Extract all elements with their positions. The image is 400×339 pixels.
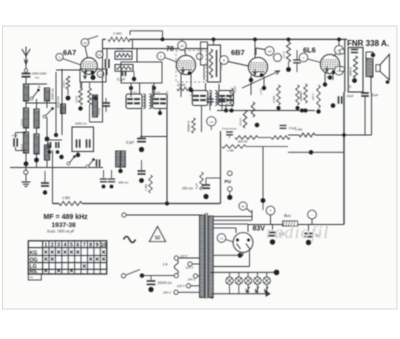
wire drop to resistor box xyxy=(132,39,134,49)
resistor screen xyxy=(296,85,300,105)
svg-text:9: 9 xyxy=(96,242,99,248)
band switch slash E xyxy=(86,165,89,168)
svg-text:PU: PU xyxy=(225,179,232,184)
svg-text:1 MΩ: 1 MΩ xyxy=(62,196,70,200)
svg-text:×: × xyxy=(63,250,67,257)
svg-text:HF: HF xyxy=(98,54,102,57)
svg-text:10000: 10000 xyxy=(62,80,66,88)
wire rectifier heater return xyxy=(249,250,251,267)
padding capacitor cluster xyxy=(47,142,49,148)
junction dot PU xyxy=(227,195,232,200)
resistor 50000 vertical small xyxy=(251,102,255,117)
capacitor antenna series 1500-2000 cm xyxy=(25,65,27,70)
svg-text:FNR 338 A.: FNR 338 A. xyxy=(347,39,389,48)
svg-text:0,1µF: 0,1µF xyxy=(117,78,126,82)
heater arrows xyxy=(246,287,250,293)
svg-text:20000 cm: 20000 cm xyxy=(157,281,172,285)
svg-text:×: × xyxy=(57,250,61,257)
wire stage box top xyxy=(103,48,208,50)
capacitor IFT1b xyxy=(134,98,140,100)
svg-text:Scala: 1000 cm pF: Scala: 1000 cm pF xyxy=(47,230,75,234)
svg-text:B: B xyxy=(223,59,225,63)
svg-text:50000: 50000 xyxy=(300,90,303,98)
dial lamps xyxy=(226,277,233,284)
svg-text:10: 10 xyxy=(101,242,107,248)
junction dot xyxy=(132,77,136,81)
wire B+ right riser xyxy=(343,92,345,225)
IF transformer 1 secondary box xyxy=(153,94,168,109)
resistor 10000 below 6A7 xyxy=(66,76,70,89)
wire right column xyxy=(344,40,346,92)
terminal earth xyxy=(24,170,28,174)
svg-text:80 cm: 80 cm xyxy=(153,90,161,94)
IF transformer 2 secondary box xyxy=(219,91,234,106)
wire cap links xyxy=(16,132,27,134)
IFT1 coils xyxy=(143,94,145,109)
wire IFT1 leads xyxy=(139,83,141,94)
voltage tap 240V xyxy=(174,290,178,294)
resistor 1 Mohm vertical xyxy=(230,88,234,107)
magic eye circle LM xyxy=(207,117,216,126)
svg-text:25000: 25000 xyxy=(20,118,24,126)
svg-text:1 MΩ: 1 MΩ xyxy=(295,128,303,132)
svg-text:20000: 20000 xyxy=(176,83,186,87)
svg-text:V=: V= xyxy=(30,276,34,280)
valve-band table xyxy=(28,241,106,274)
voltage tap 145V xyxy=(194,274,198,278)
svg-text:2000 Ω: 2000 Ω xyxy=(349,67,353,77)
wire xyxy=(25,128,27,132)
junction dot xyxy=(261,198,266,203)
capacitor 3uF first xyxy=(272,225,274,232)
coil small x63 xyxy=(61,104,66,114)
junction dot below 6A7 xyxy=(91,75,96,80)
capacitor feedback xyxy=(226,131,233,133)
svg-text:×: × xyxy=(101,250,105,257)
svg-text:Betr.: Betr. xyxy=(284,213,291,218)
svg-text:4 MΩ: 4 MΩ xyxy=(272,95,276,103)
svg-text:2: 2 xyxy=(51,242,54,248)
wire HF box down link xyxy=(102,78,104,122)
svg-text:1937-38: 1937-38 xyxy=(52,222,77,229)
svg-text:4650 cm: 4650 cm xyxy=(56,96,60,108)
screen box 78 stage left edge xyxy=(136,49,138,62)
wire pickup line xyxy=(122,213,126,217)
svg-text:LN: LN xyxy=(220,237,224,241)
svg-text:25000: 25000 xyxy=(75,95,79,103)
voltage tap 110V xyxy=(178,257,199,259)
svg-text:×: × xyxy=(89,257,93,264)
capacitor 20000 cm mains xyxy=(150,276,152,280)
capacitor IFT1d xyxy=(160,98,166,100)
mains transformer primary winding xyxy=(200,215,205,298)
svg-text:125 V: 125 V xyxy=(186,266,195,270)
capacitor lower cluster xyxy=(96,159,98,166)
resistor right of 6B7 xyxy=(287,42,291,62)
svg-text:cm: cm xyxy=(35,75,40,79)
circle V xyxy=(299,53,307,61)
svg-text:600 K: 600 K xyxy=(312,93,315,100)
box below 6A7 xyxy=(80,69,106,82)
band switch slash D xyxy=(67,162,70,165)
junction dot xyxy=(24,161,29,166)
svg-text:S: S xyxy=(349,85,351,89)
svg-text:10µF: 10µF xyxy=(347,94,354,98)
svg-text:2M: 2M xyxy=(268,50,273,54)
speaker magnet xyxy=(376,65,380,72)
capacitor IFT2c xyxy=(219,95,225,97)
capacitor IFT1a xyxy=(127,98,133,100)
svg-text:1 MΩ: 1 MΩ xyxy=(144,183,148,191)
resistor 30000 xyxy=(88,88,92,105)
terminal on riser lower xyxy=(340,67,345,72)
grid cap circle AM xyxy=(81,39,89,47)
wire screen feed xyxy=(262,147,264,199)
wire oscillator frame xyxy=(121,62,162,83)
circle G xyxy=(97,71,103,77)
svg-text:2500 cm: 2500 cm xyxy=(51,88,55,101)
terminal PU top xyxy=(228,171,232,175)
capacitor 100 cm xyxy=(89,105,91,122)
svg-text:50000: 50000 xyxy=(20,143,24,151)
svg-text:30000: 30000 xyxy=(234,85,237,93)
resistor 20000 ohm xyxy=(177,87,191,91)
svg-text:83V: 83V xyxy=(253,226,266,233)
junction dot xyxy=(129,86,133,90)
resistor 25000 xyxy=(79,88,83,105)
wire heater bus xyxy=(211,271,277,273)
svg-text:1 MΩ: 1 MΩ xyxy=(225,97,229,105)
svg-text:F: F xyxy=(160,54,162,58)
svg-text:7: 7 xyxy=(83,242,86,248)
ground antenna circuit xyxy=(25,175,27,179)
svg-text:78: 78 xyxy=(166,46,174,53)
resistor feedback 2 xyxy=(271,136,290,140)
svg-text:220 V: 220 V xyxy=(176,284,186,288)
wire horizontals left mesh xyxy=(26,83,47,85)
circle M lower xyxy=(274,54,282,62)
circle HF xyxy=(96,51,103,58)
svg-text:×: × xyxy=(44,268,48,275)
band switch C xyxy=(43,115,46,118)
svg-text:×: × xyxy=(50,257,54,264)
wire top B+ bus xyxy=(103,38,348,40)
wire xyxy=(61,69,63,135)
speaker cone xyxy=(380,55,389,80)
capacitor 10uF second xyxy=(361,92,369,94)
tube 6L6 xyxy=(321,55,340,74)
wire IFT2 leads xyxy=(205,83,207,91)
resistor 100000 vertical xyxy=(243,110,247,128)
capacitor in field box xyxy=(351,49,358,51)
svg-text:×: × xyxy=(82,263,86,270)
svg-text:8: 8 xyxy=(89,242,92,248)
resistor cathode 6L6 xyxy=(317,85,321,108)
resistor 600K vertical xyxy=(304,84,308,103)
wire 78 pins xyxy=(180,73,182,97)
svg-text:OG: OG xyxy=(30,257,38,263)
capacitor IFT2d xyxy=(226,95,232,97)
svg-text:50000 Ω: 50000 Ω xyxy=(187,120,191,132)
terminal antenna xyxy=(24,69,27,72)
rectifier tube 80 xyxy=(233,233,253,253)
capacitor 6.3uF xyxy=(137,138,146,140)
grid cap circle B xyxy=(220,56,228,64)
speaker transformer winding xyxy=(366,59,373,77)
capacitor 0.1uF pair xyxy=(122,71,124,76)
svg-text:6: 6 xyxy=(76,242,79,248)
resistor 1 Mohm lower xyxy=(222,145,246,149)
rectifier filament taps xyxy=(213,216,252,218)
svg-text:+: + xyxy=(269,208,272,213)
IF transformer 1 primary box xyxy=(126,94,142,109)
wire IF drops xyxy=(130,83,132,97)
svg-text:110 V: 110 V xyxy=(180,254,189,258)
svg-text:LM: LM xyxy=(209,120,214,124)
trimmer pair above ground bus xyxy=(103,170,105,178)
resistor feedback 1 xyxy=(235,136,258,140)
resistor 50000 ohm vertical xyxy=(192,118,196,133)
capacitor 0.1uF xyxy=(280,125,287,127)
resistor 2744 box xyxy=(115,51,132,59)
capacitor AVC 1 xyxy=(206,98,213,100)
circle Pm xyxy=(335,66,344,75)
tube 6B7 xyxy=(249,58,268,77)
svg-text:1 A: 1 A xyxy=(163,263,169,267)
mains transformer core xyxy=(204,213,206,299)
coil L2 25000 xyxy=(23,108,28,128)
junction dot heater xyxy=(274,270,280,276)
svg-text:0,1µF: 0,1µF xyxy=(219,63,223,70)
terminal minus xyxy=(308,210,317,219)
svg-text:×: × xyxy=(69,268,73,275)
svg-text:−: − xyxy=(311,212,314,217)
svg-text:680 cm: 680 cm xyxy=(119,181,129,185)
resistor 4 Mohm vertical xyxy=(277,85,281,105)
svg-text:4050 cm: 4050 cm xyxy=(75,122,87,126)
svg-text:2 MΩ: 2 MΩ xyxy=(112,32,122,36)
svg-text:1 MΩ: 1 MΩ xyxy=(259,89,263,95)
antenna xyxy=(25,47,27,57)
svg-text:×: × xyxy=(95,257,99,264)
screen dashed box around 78 xyxy=(176,51,206,83)
AC wave symbol xyxy=(124,237,136,243)
coil column x36 upper xyxy=(36,99,38,109)
coil 50000 right of resistors xyxy=(93,95,98,117)
svg-text:×: × xyxy=(44,257,48,264)
svg-text:10µF: 10µF xyxy=(372,93,379,97)
capacitor 3uF second xyxy=(308,225,310,233)
svg-text:80 cm: 80 cm xyxy=(130,90,138,94)
circle LN xyxy=(217,234,225,242)
terminal plus xyxy=(266,206,275,215)
svg-text:6A7: 6A7 xyxy=(63,48,76,57)
wire HF drop pair xyxy=(102,49,104,78)
grid cap circle 2M xyxy=(178,41,186,49)
circle 2M upper xyxy=(265,47,274,56)
oscillator coil box xyxy=(208,45,221,82)
svg-text:600 KΩ: 600 KΩ xyxy=(238,140,248,144)
coil bar mid xyxy=(116,151,121,167)
mains switch xyxy=(122,274,126,278)
svg-text:1: 1 xyxy=(44,242,47,248)
wire verticals from mid bus xyxy=(166,108,168,204)
junction dot xyxy=(300,109,304,113)
IF transformer 2 primary box xyxy=(192,91,208,106)
tall box left of 6B7 xyxy=(201,42,208,65)
voltage tap 220V xyxy=(187,284,191,288)
capacitor AVC 2 xyxy=(218,98,225,100)
capacitor IFT2b xyxy=(200,95,206,97)
circle g xyxy=(197,54,203,60)
svg-text:3: 3 xyxy=(57,242,60,248)
terminal on riser upper xyxy=(340,49,345,54)
svg-text:6B7: 6B7 xyxy=(231,48,245,57)
wire B+ 83V line xyxy=(248,224,344,226)
svg-text:4: 4 xyxy=(64,242,67,248)
svg-text:AM: AM xyxy=(83,41,87,45)
svg-text:5000: 5000 xyxy=(165,91,169,97)
svg-text:MF = 489 kHz: MF = 489 kHz xyxy=(44,214,89,221)
svg-text:2744: 2744 xyxy=(116,47,124,51)
warning triangle 50 xyxy=(150,227,166,242)
resistor vertical near PU xyxy=(149,175,153,193)
IFT2 coils xyxy=(209,91,211,106)
svg-text:V: V xyxy=(302,56,304,60)
field coil resistor xyxy=(354,56,358,78)
svg-text:radiofil: radiofil xyxy=(266,222,330,242)
table small tab bottom xyxy=(28,274,41,280)
svg-text:200: 200 xyxy=(325,76,331,79)
junction dots on top bus xyxy=(161,38,165,42)
voltage tap 125V xyxy=(188,262,192,266)
svg-text:×: × xyxy=(101,257,105,264)
capacitor IFT2a xyxy=(193,95,199,97)
capacitor IFT1c xyxy=(153,98,159,100)
svg-text:0,5 M: 0,5 M xyxy=(282,51,286,58)
svg-text:100000: 100000 xyxy=(240,117,243,126)
wire 6A7 pins xyxy=(81,82,83,88)
wire heater return xyxy=(211,293,270,295)
svg-text:240 V: 240 V xyxy=(162,291,172,295)
coil L6 xyxy=(44,145,49,160)
wire 6B7 top cap xyxy=(254,40,256,58)
circle CN xyxy=(335,46,344,55)
junction dot speaker top xyxy=(371,53,375,57)
svg-text:1 MΩ: 1 MΩ xyxy=(227,149,235,153)
svg-text:5: 5 xyxy=(70,242,73,248)
capacitor HF coupling xyxy=(105,59,107,68)
resistor 5000 box xyxy=(115,65,133,72)
resistor 2 Mohm on top bus xyxy=(106,35,129,43)
wire xyxy=(25,101,27,108)
svg-text:×: × xyxy=(57,268,61,275)
svg-text:Gegenkopp.: Gegenkopp. xyxy=(222,127,237,131)
svg-text:×: × xyxy=(69,250,73,257)
svg-text:Rö.: Rö. xyxy=(30,269,39,275)
capacitor xyxy=(293,59,301,61)
circle S xyxy=(56,54,63,61)
tube 78 xyxy=(177,56,196,75)
coil column x36 lower xyxy=(34,134,39,154)
wire rectifier cathode to transformer xyxy=(242,252,244,255)
svg-text:4 µF: 4 µF xyxy=(195,183,199,189)
capacitor with ground lower-left xyxy=(44,171,46,182)
tube 6A7 xyxy=(81,58,97,74)
wire mains xyxy=(142,275,176,277)
wire oscillator column 2500 cm xyxy=(55,72,57,135)
wire 6L6 pins xyxy=(324,73,326,83)
wire y136 link xyxy=(140,136,167,138)
svg-text:80: 80 xyxy=(241,205,245,209)
wire ground bus xyxy=(53,203,60,205)
svg-text:×: × xyxy=(50,250,54,257)
wire 6B7 pins xyxy=(250,75,252,95)
svg-text:S: S xyxy=(59,55,61,59)
coil L5 xyxy=(44,88,49,101)
svg-text:KG: KG xyxy=(30,250,38,256)
svg-text:×: × xyxy=(76,250,80,257)
coil L1 antenna xyxy=(23,84,28,101)
terminal PU bottom xyxy=(228,187,232,191)
wire speaker down xyxy=(370,77,372,93)
capacitor mid with dot xyxy=(141,160,143,170)
wire drop from bus to HF filter xyxy=(102,39,104,48)
junction dot xyxy=(59,155,63,159)
svg-text:G: G xyxy=(99,72,101,76)
resistor 250 ohm vertical xyxy=(200,172,204,190)
wire right mid horizontals xyxy=(288,134,299,136)
circle F xyxy=(157,52,165,60)
band switch A xyxy=(30,97,33,100)
svg-text:6,3µF: 6,3µF xyxy=(126,141,135,145)
capacitor 10uF xyxy=(338,96,340,104)
wire xyxy=(258,137,271,139)
wire oscillator feedback link xyxy=(130,30,163,32)
svg-text:50000: 50000 xyxy=(97,107,101,115)
svg-text:50: 50 xyxy=(155,236,161,242)
circle 80 rectifier label xyxy=(239,202,247,210)
svg-text:250 cm: 250 cm xyxy=(181,187,193,191)
svg-text:145 V: 145 V xyxy=(188,278,197,282)
wire mid horizontal bus y110 xyxy=(217,110,315,112)
junction dot field xyxy=(352,78,357,83)
svg-text:×: × xyxy=(44,250,48,257)
coil L3 50000 xyxy=(23,132,28,153)
mains transformer secondary winding xyxy=(209,216,214,298)
svg-text:0,1: 0,1 xyxy=(190,93,194,97)
field coil box xyxy=(348,48,363,93)
volume potentiometer arrow xyxy=(242,71,280,88)
